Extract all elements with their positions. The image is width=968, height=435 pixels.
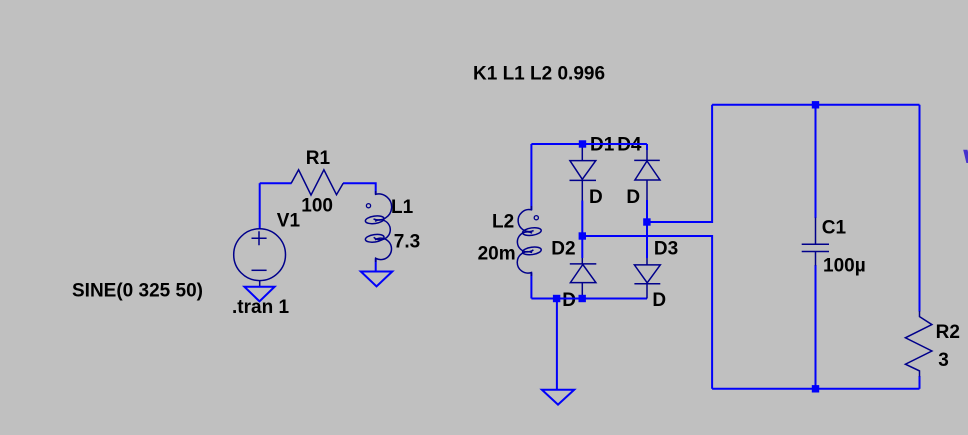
svg-text:100: 100 xyxy=(301,196,333,217)
capacitor C1 xyxy=(802,218,829,266)
svg-text:100µ: 100µ xyxy=(823,256,866,277)
wire left column middle segment xyxy=(581,201,583,259)
junction node bridge plus output xyxy=(579,232,586,239)
wire R1 to L1 corner xyxy=(343,183,376,194)
diode D3 xyxy=(634,258,660,299)
inductor L1 xyxy=(365,191,392,262)
wire ground stem xyxy=(556,299,558,390)
svg-text:R2: R2 xyxy=(936,322,960,343)
wire right column upper segment xyxy=(646,144,648,150)
svg-text:D: D xyxy=(626,187,640,208)
wire L1 bottom lead xyxy=(375,258,377,271)
svg-text:K1 L1 L2 0.996: K1 L1 L2 0.996 xyxy=(473,64,605,85)
net label V (clipped at right edge) xyxy=(963,150,968,163)
svg-text:20m: 20m xyxy=(478,244,516,265)
wire L2 bottom lead xyxy=(530,273,532,299)
junction node at top of D1 xyxy=(579,140,586,147)
svg-text:V1: V1 xyxy=(277,210,301,231)
svg-text:D2: D2 xyxy=(551,239,575,260)
svg-text:D: D xyxy=(589,187,603,208)
svg-text:L2: L2 xyxy=(492,212,514,233)
junction node D2 bottom tee xyxy=(579,295,586,302)
wire C1 bottom xyxy=(815,265,817,389)
svg-text:D: D xyxy=(562,290,576,311)
diode D2 xyxy=(570,258,597,299)
wire bridge minus output to top rail xyxy=(647,105,712,222)
wire top node L2 to D4 column xyxy=(531,143,647,145)
ground at V1 xyxy=(244,287,274,302)
svg-text:C1: C1 xyxy=(822,218,847,239)
wire V1 top lead xyxy=(259,183,261,229)
wire right column middle segment xyxy=(646,200,648,258)
ground at L1 xyxy=(361,272,393,287)
wire C1 top xyxy=(815,105,817,218)
wire R2 bottom xyxy=(919,376,921,389)
svg-text:SINE(0 325 50): SINE(0 325 50) xyxy=(72,280,203,301)
svg-text:R1: R1 xyxy=(306,148,331,169)
junction node C1 bottom xyxy=(812,385,819,392)
wire R2 top xyxy=(919,105,921,312)
inductor L2 xyxy=(517,206,541,276)
resistor R2 xyxy=(905,311,932,377)
wire top rail xyxy=(712,104,919,106)
ground at bridge xyxy=(542,390,574,405)
resistor R1 xyxy=(291,170,343,195)
voltage source V1 xyxy=(234,229,286,287)
diode D1 xyxy=(570,146,597,201)
svg-text:7.3: 7.3 xyxy=(394,232,420,253)
wire V1 to R1 xyxy=(260,182,292,184)
svg-text:D3: D3 xyxy=(654,239,678,260)
wire bottom node xyxy=(531,298,647,300)
wire bottom rail xyxy=(712,388,919,390)
svg-text:D: D xyxy=(652,290,666,311)
diode D4 xyxy=(634,150,660,200)
svg-text:L1: L1 xyxy=(391,197,414,218)
junction node ground tee xyxy=(553,295,560,302)
svg-text:3: 3 xyxy=(938,350,949,371)
wire bridge plus output to bottom rail xyxy=(582,236,712,389)
junction node C1 top xyxy=(812,101,819,108)
junction node bridge minus output xyxy=(643,218,650,225)
wire L2 top lead xyxy=(530,144,532,210)
